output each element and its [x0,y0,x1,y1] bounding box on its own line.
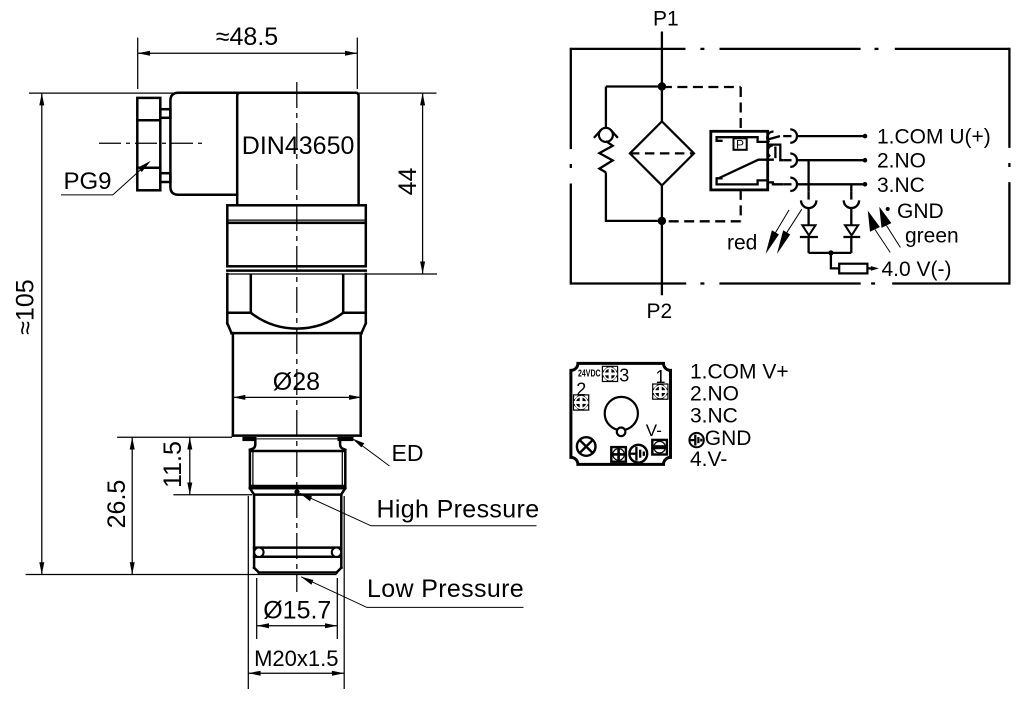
dashed enclosure top [662,86,741,88]
ground symbol small [689,433,703,447]
dashed enclosure bottom [662,220,741,222]
svg-text:44: 44 [394,168,422,196]
wire LED cathode join [809,252,852,254]
top reference extension line [29,92,437,94]
connector mid body (rounded) [170,93,237,195]
svg-text:Ø28: Ø28 [273,368,320,396]
svg-text:Ø15.7: Ø15.7 [263,597,331,625]
wire P1 vertical [661,32,663,87]
upper housing band [227,223,365,266]
wire top node to left branch [606,85,662,87]
svg-text:1.COM V+: 1.COM V+ [690,361,789,384]
contact 3 socket arc [790,178,797,191]
svg-text:DIN43650: DIN43650 [242,132,355,160]
svg-text:1.COM U(+): 1.COM U(+) [877,126,991,149]
dimension 44 [394,93,425,274]
svg-text:P1: P1 [653,8,679,31]
GND dot [886,207,890,211]
border chain frame right [1008,48,1010,285]
svg-text:3.NC: 3.NC [690,404,738,427]
threaded section M20 [250,451,345,495]
high pressure port dot [294,489,299,494]
switch bottom contact bar [717,178,768,184]
svg-text:P2: P2 [647,300,673,323]
dimension 48.5 [138,23,358,89]
wire left branch lower [606,172,662,221]
connector face square with notched corners [571,363,671,464]
D28 cylinder [233,333,361,436]
vertical centerline [296,82,298,592]
O-ring groove [254,548,341,557]
terminal 1 screw [652,383,668,399]
center boss circle [605,397,638,430]
green LED diode [845,225,858,235]
terminal 3 screw [602,366,618,382]
svg-text:3: 3 [619,365,629,385]
dimension 11.5 [159,437,252,495]
dashed enclosure right lower [740,190,742,221]
svg-text:3.NC: 3.NC [877,174,925,197]
svg-text:4.0 V(-): 4.0 V(-) [882,258,952,281]
border chain frame bottom [571,282,1010,284]
bottom center screw terminal [611,447,626,462]
svg-text:4.V-: 4.V- [690,448,727,471]
pressure transducer diamond [630,121,694,185]
contact 2 socket arc [790,154,797,167]
contact curl lower [768,145,773,156]
svg-text:M20x1.5: M20x1.5 [254,646,338,671]
microswitch box [711,131,768,190]
svg-text:GND: GND [897,200,944,223]
green LED branch wire [850,184,852,191]
spring zigzag [599,141,612,172]
ball seat ticks [594,130,601,138]
svg-text:≈48.5: ≈48.5 [216,23,278,51]
gland tab upper [160,109,170,118]
dimension D28 [233,368,361,400]
svg-text:High Pressure: High Pressure [377,496,540,524]
border chain frame top [571,48,1010,50]
diamond dashed diagonal [630,152,694,154]
flange plate below DIN box [227,205,365,223]
wire resistor to terminal 4 [867,267,872,269]
svg-text:P: P [736,138,744,152]
contact 3 NC wire jog [768,182,784,184]
housing band lower line [227,269,365,272]
svg-text:≈105: ≈105 [12,279,40,334]
red LED diode [802,225,815,235]
DIN43650 connector box [237,93,358,206]
red branch socket arc [801,200,816,208]
svg-text:26.5: 26.5 [103,480,131,529]
label PG9 with leader [61,161,151,195]
hex top line (extends right as 44 extension line) [227,273,437,275]
neck with fillets [250,441,345,450]
dimension 105 [12,93,45,574]
switch P sensor box [734,138,747,150]
node bottom junction [658,217,666,225]
svg-text:V-: V- [646,421,662,440]
border chain frame left [570,48,572,285]
dimension 26.5 [26,437,337,574]
wire P2 vertical [661,87,663,296]
terminal 2 screw [573,394,589,410]
svg-text:PG9: PG9 [64,168,112,195]
svg-text:24VDC: 24VDC [578,367,601,379]
svg-text:ED: ED [392,440,424,466]
red LED branch wire [807,160,809,191]
svg-text:2.NO: 2.NO [690,382,739,405]
green light arrows [868,207,901,253]
svg-text:red: red [727,231,757,254]
wire left branch down [605,87,607,129]
dimension M20x1.5 [248,496,344,689]
node top junction [658,82,666,90]
switch blade [719,160,774,178]
PG9 cable gland stack [137,98,160,190]
resistor R1 [839,264,867,274]
dashed enclosure right upper [740,87,742,131]
ED seal rings (black) [242,437,353,441]
svg-text:Low Pressure: Low Pressure [367,575,524,603]
svg-text:2.NO: 2.NO [877,150,926,173]
junction dot [828,250,833,255]
contact curl upper [767,131,773,142]
terminal 4 screw [652,440,667,455]
label High Pressure with leader [300,493,540,526]
horizontal centerline (gland axis) [99,142,204,144]
keyway bump [617,428,626,437]
dimension D15.7 [257,578,338,639]
hex nut section [227,274,365,333]
contact 2 NO wire jog [768,145,784,161]
red light arrows [766,209,802,254]
green branch socket arc [844,200,859,208]
label Low Pressure with leader [301,575,524,608]
svg-text:GND: GND [705,427,752,450]
lower stem section [254,495,341,573]
contact 1 socket arc [790,129,797,142]
wire to resistor [831,253,839,269]
label ED with leader [352,438,423,466]
svg-text:green: green [905,225,959,248]
svg-text:11.5: 11.5 [159,441,187,488]
ball valve circle [599,128,613,142]
contact 1 COM wire [768,136,780,139]
ground symbol circle [629,445,647,463]
gland tab lower [160,173,170,182]
switch top contact bar [717,137,768,142]
lamp symbol circle X [577,437,596,456]
